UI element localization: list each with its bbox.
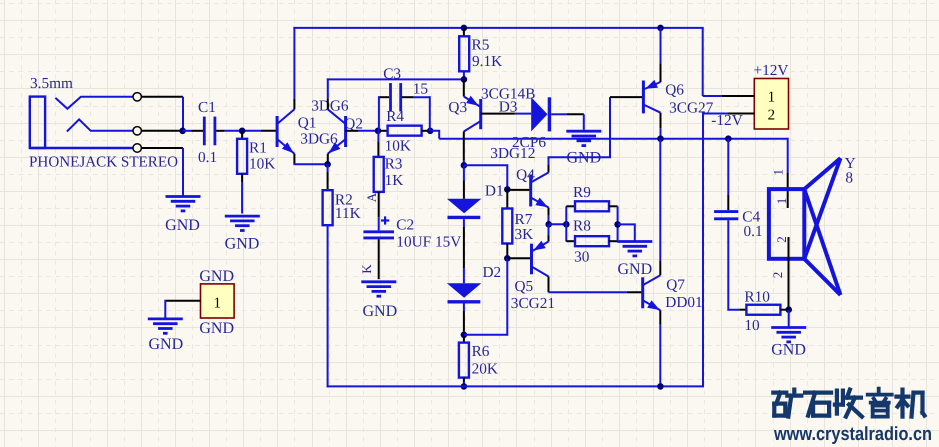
wire Q2 emitter xyxy=(327,154,329,164)
transistor Q4 xyxy=(531,173,549,208)
svg-text:PHONEJACK STEREO: PHONEJACK STEREO xyxy=(29,154,178,171)
wire speaker pin2 down xyxy=(788,310,790,327)
svg-text:3K: 3K xyxy=(515,226,534,243)
wire Q6 collector xyxy=(660,113,662,139)
resistor R7 xyxy=(502,189,533,243)
diode D1 xyxy=(447,199,481,218)
wire C4 bottom to R10 xyxy=(728,220,746,310)
svg-text:C1: C1 xyxy=(198,99,216,116)
transistor Q6 xyxy=(643,80,660,114)
speaker horn xyxy=(804,158,840,295)
node R5 top xyxy=(461,25,468,32)
svg-text:-12V: -12V xyxy=(711,112,742,129)
phone jack connector body (PHONEJACK STEREO) xyxy=(30,97,133,148)
svg-text:2: 2 xyxy=(770,272,785,279)
ground R8 GND xyxy=(617,242,652,278)
svg-text:R6: R6 xyxy=(472,343,490,360)
svg-text:10: 10 xyxy=(744,317,760,334)
label D2 xyxy=(483,264,502,281)
jack pin circle 3 xyxy=(133,144,141,152)
node R4 left xyxy=(375,128,382,135)
transistor Q7 xyxy=(643,275,661,310)
label Q2 xyxy=(344,115,363,132)
svg-text:0.1: 0.1 xyxy=(744,223,763,240)
svg-text:GND: GND xyxy=(617,261,652,278)
node R10 speaker junction xyxy=(785,306,792,313)
wire pin1 +12V xyxy=(703,95,755,97)
svg-text:1: 1 xyxy=(771,169,786,176)
ground C2 GND xyxy=(361,282,397,320)
wire Q3 emitter stub xyxy=(463,79,465,96)
wire pin2 -12V xyxy=(702,113,754,115)
wire speaker drive net xyxy=(439,138,788,140)
svg-text:R10: R10 xyxy=(744,289,770,306)
svg-text:D1: D1 xyxy=(485,183,504,200)
svg-text:9.1K: 9.1K xyxy=(472,53,502,70)
label Q3 xyxy=(448,99,467,116)
node R8R9 left junction xyxy=(563,221,570,228)
node C4 top junction xyxy=(725,135,732,142)
speaker Y box xyxy=(769,189,804,259)
wire +12V top rail xyxy=(293,28,703,96)
wire emitters to R2 xyxy=(327,164,329,190)
label Q1 value 3DG6 xyxy=(300,131,338,148)
label C3 value 15 xyxy=(413,81,429,98)
resistor R9 xyxy=(566,184,617,212)
diode D2 xyxy=(447,283,481,302)
label Q5 value 3CG21 xyxy=(511,295,555,312)
svg-text:Q1: Q1 xyxy=(298,115,317,132)
label Q5 xyxy=(515,278,534,295)
svg-text:GND: GND xyxy=(199,268,234,285)
wire Q2 collector riser xyxy=(327,78,329,109)
label PHONEJACK STEREO xyxy=(29,154,178,171)
jack pin circle 1 xyxy=(133,93,141,101)
wire Q3 collector to R7 top xyxy=(464,165,507,189)
wire Q1 collector riser xyxy=(293,27,295,109)
watermark CJK text xyxy=(773,389,924,417)
speaker pin2 inside label xyxy=(774,236,789,243)
wire D2 to R6 node xyxy=(463,304,465,335)
svg-text:Q6: Q6 xyxy=(665,82,684,99)
label Q6 value 3CG27 xyxy=(669,100,714,117)
svg-text:3.5mm: 3.5mm xyxy=(30,75,73,92)
label D3 value 2CP6 xyxy=(512,134,546,151)
transistor Q3 xyxy=(464,96,481,132)
svg-text:3DG12: 3DG12 xyxy=(490,145,535,162)
svg-text:Q5: Q5 xyxy=(515,278,534,295)
label Q2 value 3DG6 xyxy=(311,97,349,114)
wire D3 cathode xyxy=(551,114,584,130)
label C2 pin K xyxy=(359,264,374,274)
svg-text:11K: 11K xyxy=(335,205,361,222)
node emitter junction Q4-Q5 xyxy=(545,221,552,228)
node Q6 collector junction xyxy=(657,135,664,142)
watermark url text xyxy=(773,424,932,445)
svg-text:C3: C3 xyxy=(383,66,401,83)
capacitor C3 xyxy=(379,83,430,131)
wire speaker pin2 xyxy=(788,237,790,310)
wire Q3 collector to D1 xyxy=(463,165,465,199)
ground block GND xyxy=(148,319,183,353)
ground jack GND xyxy=(165,197,200,234)
node R5 bottom junction xyxy=(461,76,468,83)
svg-text:Q2: Q2 xyxy=(344,115,363,132)
wire R4 left to R3 xyxy=(377,131,379,157)
transistor Q2 xyxy=(328,109,346,153)
node jack signal junction xyxy=(179,128,186,135)
wire R10 right xyxy=(781,309,789,311)
label D1 xyxy=(485,183,504,200)
label 3.5mm xyxy=(30,75,73,92)
svg-text:R5: R5 xyxy=(472,36,490,53)
capacitor C1 xyxy=(198,99,217,166)
resistor R6 xyxy=(459,335,498,378)
svg-text:8: 8 xyxy=(845,170,853,187)
node R4 right xyxy=(427,128,434,135)
label Y xyxy=(845,155,856,172)
svg-text:R1: R1 xyxy=(249,139,267,156)
wire jack to C1 xyxy=(183,130,203,132)
svg-text:R9: R9 xyxy=(573,184,591,201)
svg-text:1: 1 xyxy=(774,198,789,205)
resistor R2 xyxy=(323,190,361,225)
wire Q1 emitter xyxy=(293,154,327,165)
svg-text:10K: 10K xyxy=(385,137,411,154)
wire GND block to earth xyxy=(165,300,200,319)
svg-text:GND: GND xyxy=(225,236,260,253)
svg-text:3CG21: 3CG21 xyxy=(511,295,555,312)
svg-text:R8: R8 xyxy=(573,218,591,235)
node Q6 emitter top rail xyxy=(657,25,664,32)
svg-text:GND: GND xyxy=(771,342,806,359)
svg-text:15: 15 xyxy=(413,81,429,98)
wire emitter junction to R8R9 xyxy=(549,223,567,225)
wire Q3 base to D3 xyxy=(481,113,532,115)
wire Q2 base xyxy=(346,130,378,132)
label GND above block xyxy=(199,268,234,285)
resistor R5 xyxy=(459,28,502,71)
wire Q5 emitter riser xyxy=(548,224,550,241)
label +12V xyxy=(754,62,789,79)
jack tip contact xyxy=(55,97,133,109)
capacitor C4 xyxy=(714,209,763,241)
wire Q2 collector to R5 bottom xyxy=(327,78,464,80)
node R8R9 right junction xyxy=(614,221,621,228)
svg-text:1: 1 xyxy=(768,90,776,106)
wire R1 top stub xyxy=(241,131,243,139)
transistor Q1 xyxy=(277,109,294,153)
label Q6 xyxy=(665,82,684,99)
svg-text:GND: GND xyxy=(362,303,397,320)
wire Q4 emitter xyxy=(548,208,550,225)
wire R4 right step down xyxy=(430,131,439,139)
svg-text:10UF 15V: 10UF 15V xyxy=(396,233,461,250)
label D3 xyxy=(499,99,518,116)
wire jack pin1 to junction xyxy=(141,97,183,131)
svg-text:Q3: Q3 xyxy=(448,99,467,116)
svg-text:2: 2 xyxy=(768,108,776,124)
capacitor C2 xyxy=(363,216,461,250)
svg-text:R3: R3 xyxy=(385,156,403,173)
wire Q6 base stub xyxy=(610,96,643,98)
svg-text:D3: D3 xyxy=(499,99,518,116)
svg-text:D2: D2 xyxy=(483,264,502,281)
label speaker pin1 number xyxy=(771,169,786,176)
svg-text:+12V: +12V xyxy=(754,62,789,79)
wire Q5 collector xyxy=(548,277,550,293)
wire Q7 emitter xyxy=(659,310,661,386)
label Q4 value 3DG12 xyxy=(490,145,535,162)
ground R1 GND xyxy=(225,216,260,253)
wire R7 bottom xyxy=(506,244,508,259)
wire jack pin2 stub xyxy=(141,130,182,132)
connector +12V/-12V block xyxy=(754,79,788,130)
svg-text:www.crystalradio.cn: www.crystalradio.cn xyxy=(773,424,932,445)
svg-text:GND: GND xyxy=(199,320,234,337)
wire Q4 collector riser xyxy=(548,157,550,172)
resistor R1 xyxy=(237,139,275,174)
wire Q4 collector to Q6 base xyxy=(549,97,611,158)
wire -12V riser and bottom rail xyxy=(327,113,703,387)
wire R6 bottom xyxy=(463,378,465,387)
svg-text:Q4: Q4 xyxy=(516,167,535,184)
svg-text:0.1: 0.1 xyxy=(198,149,217,166)
label Q3 value 3CG14B xyxy=(481,85,535,102)
jack pin circle 2 xyxy=(133,127,141,135)
transistor Q5 xyxy=(532,241,549,277)
wire Q3 collector xyxy=(463,132,465,167)
svg-text:3DG6: 3DG6 xyxy=(300,131,338,148)
wire R8R9 left vertical xyxy=(565,206,567,241)
resistor R4 xyxy=(380,108,429,154)
wire jack pin3 to ground xyxy=(141,148,183,196)
svg-text:DD01: DD01 xyxy=(665,294,702,311)
wire node to Q4 base xyxy=(507,189,530,191)
wire junction to ground hook xyxy=(618,224,635,241)
wire R5 bottom xyxy=(463,71,465,79)
ground D3 GND xyxy=(566,131,601,166)
resistor R3 xyxy=(374,156,404,192)
node R7 top junction xyxy=(504,186,511,193)
label Q4 xyxy=(516,167,535,184)
svg-text:30: 30 xyxy=(574,249,590,266)
label Q1 xyxy=(298,115,317,132)
wire C1 node to Q1 base xyxy=(261,130,277,132)
wire Q5 base node down to R6 node xyxy=(464,258,507,335)
wire R1 to ground xyxy=(241,174,243,214)
resistor R10 xyxy=(744,289,780,335)
node emitters junction xyxy=(324,161,331,168)
ground speaker GND xyxy=(771,328,806,359)
svg-text:A: A xyxy=(364,192,379,202)
resistor R8 xyxy=(566,218,617,266)
wire Q5 collector to Q7 base xyxy=(549,291,643,293)
label -12V xyxy=(711,112,742,129)
jack ring contact xyxy=(67,119,133,131)
wire C4 top lead xyxy=(727,139,729,211)
speaker pin1 inside label xyxy=(774,198,789,205)
wire C2 to ground xyxy=(378,239,380,279)
node Q3 collector junction xyxy=(461,162,468,169)
wire node to Q5 base xyxy=(507,257,531,259)
svg-text:Q7: Q7 xyxy=(666,277,685,294)
svg-text:C2: C2 xyxy=(396,217,414,234)
wire R2 to bottom rail xyxy=(327,225,329,387)
node D2-R6 junction xyxy=(461,332,468,339)
label C2 pin A xyxy=(364,192,379,202)
svg-text:1K: 1K xyxy=(385,172,404,189)
label Y value 8 xyxy=(845,170,853,187)
wire C1 to R1 node xyxy=(216,130,261,132)
svg-text:1: 1 xyxy=(214,295,222,311)
svg-text:10K: 10K xyxy=(249,155,275,172)
wire Q7 collector riser xyxy=(659,139,661,276)
label GND below block xyxy=(199,320,234,337)
svg-text:GND: GND xyxy=(148,336,183,353)
connector GND block xyxy=(201,284,235,318)
svg-text:K: K xyxy=(359,264,374,274)
wire Q6 emitter riser xyxy=(660,28,662,82)
diode D3 xyxy=(531,97,549,131)
node R6 bottom rail xyxy=(461,383,468,390)
label Q7 value DD01 xyxy=(665,294,702,311)
label Q7 xyxy=(666,277,685,294)
label C3 xyxy=(383,66,401,83)
node Q7 emitter bottom rail xyxy=(657,383,664,390)
wire R3 to C2 xyxy=(378,192,380,231)
wire D1 to D2 xyxy=(463,219,465,283)
svg-text:2: 2 xyxy=(774,236,789,243)
svg-text:20K: 20K xyxy=(472,361,498,378)
wire speaker pin1 drop xyxy=(787,138,789,208)
label speaker pin2 number xyxy=(770,272,785,279)
node Q5 base junction xyxy=(504,255,511,262)
node R1 top xyxy=(239,128,246,135)
wire R8R9 right vertical xyxy=(617,206,619,241)
svg-text:GND: GND xyxy=(165,217,200,234)
